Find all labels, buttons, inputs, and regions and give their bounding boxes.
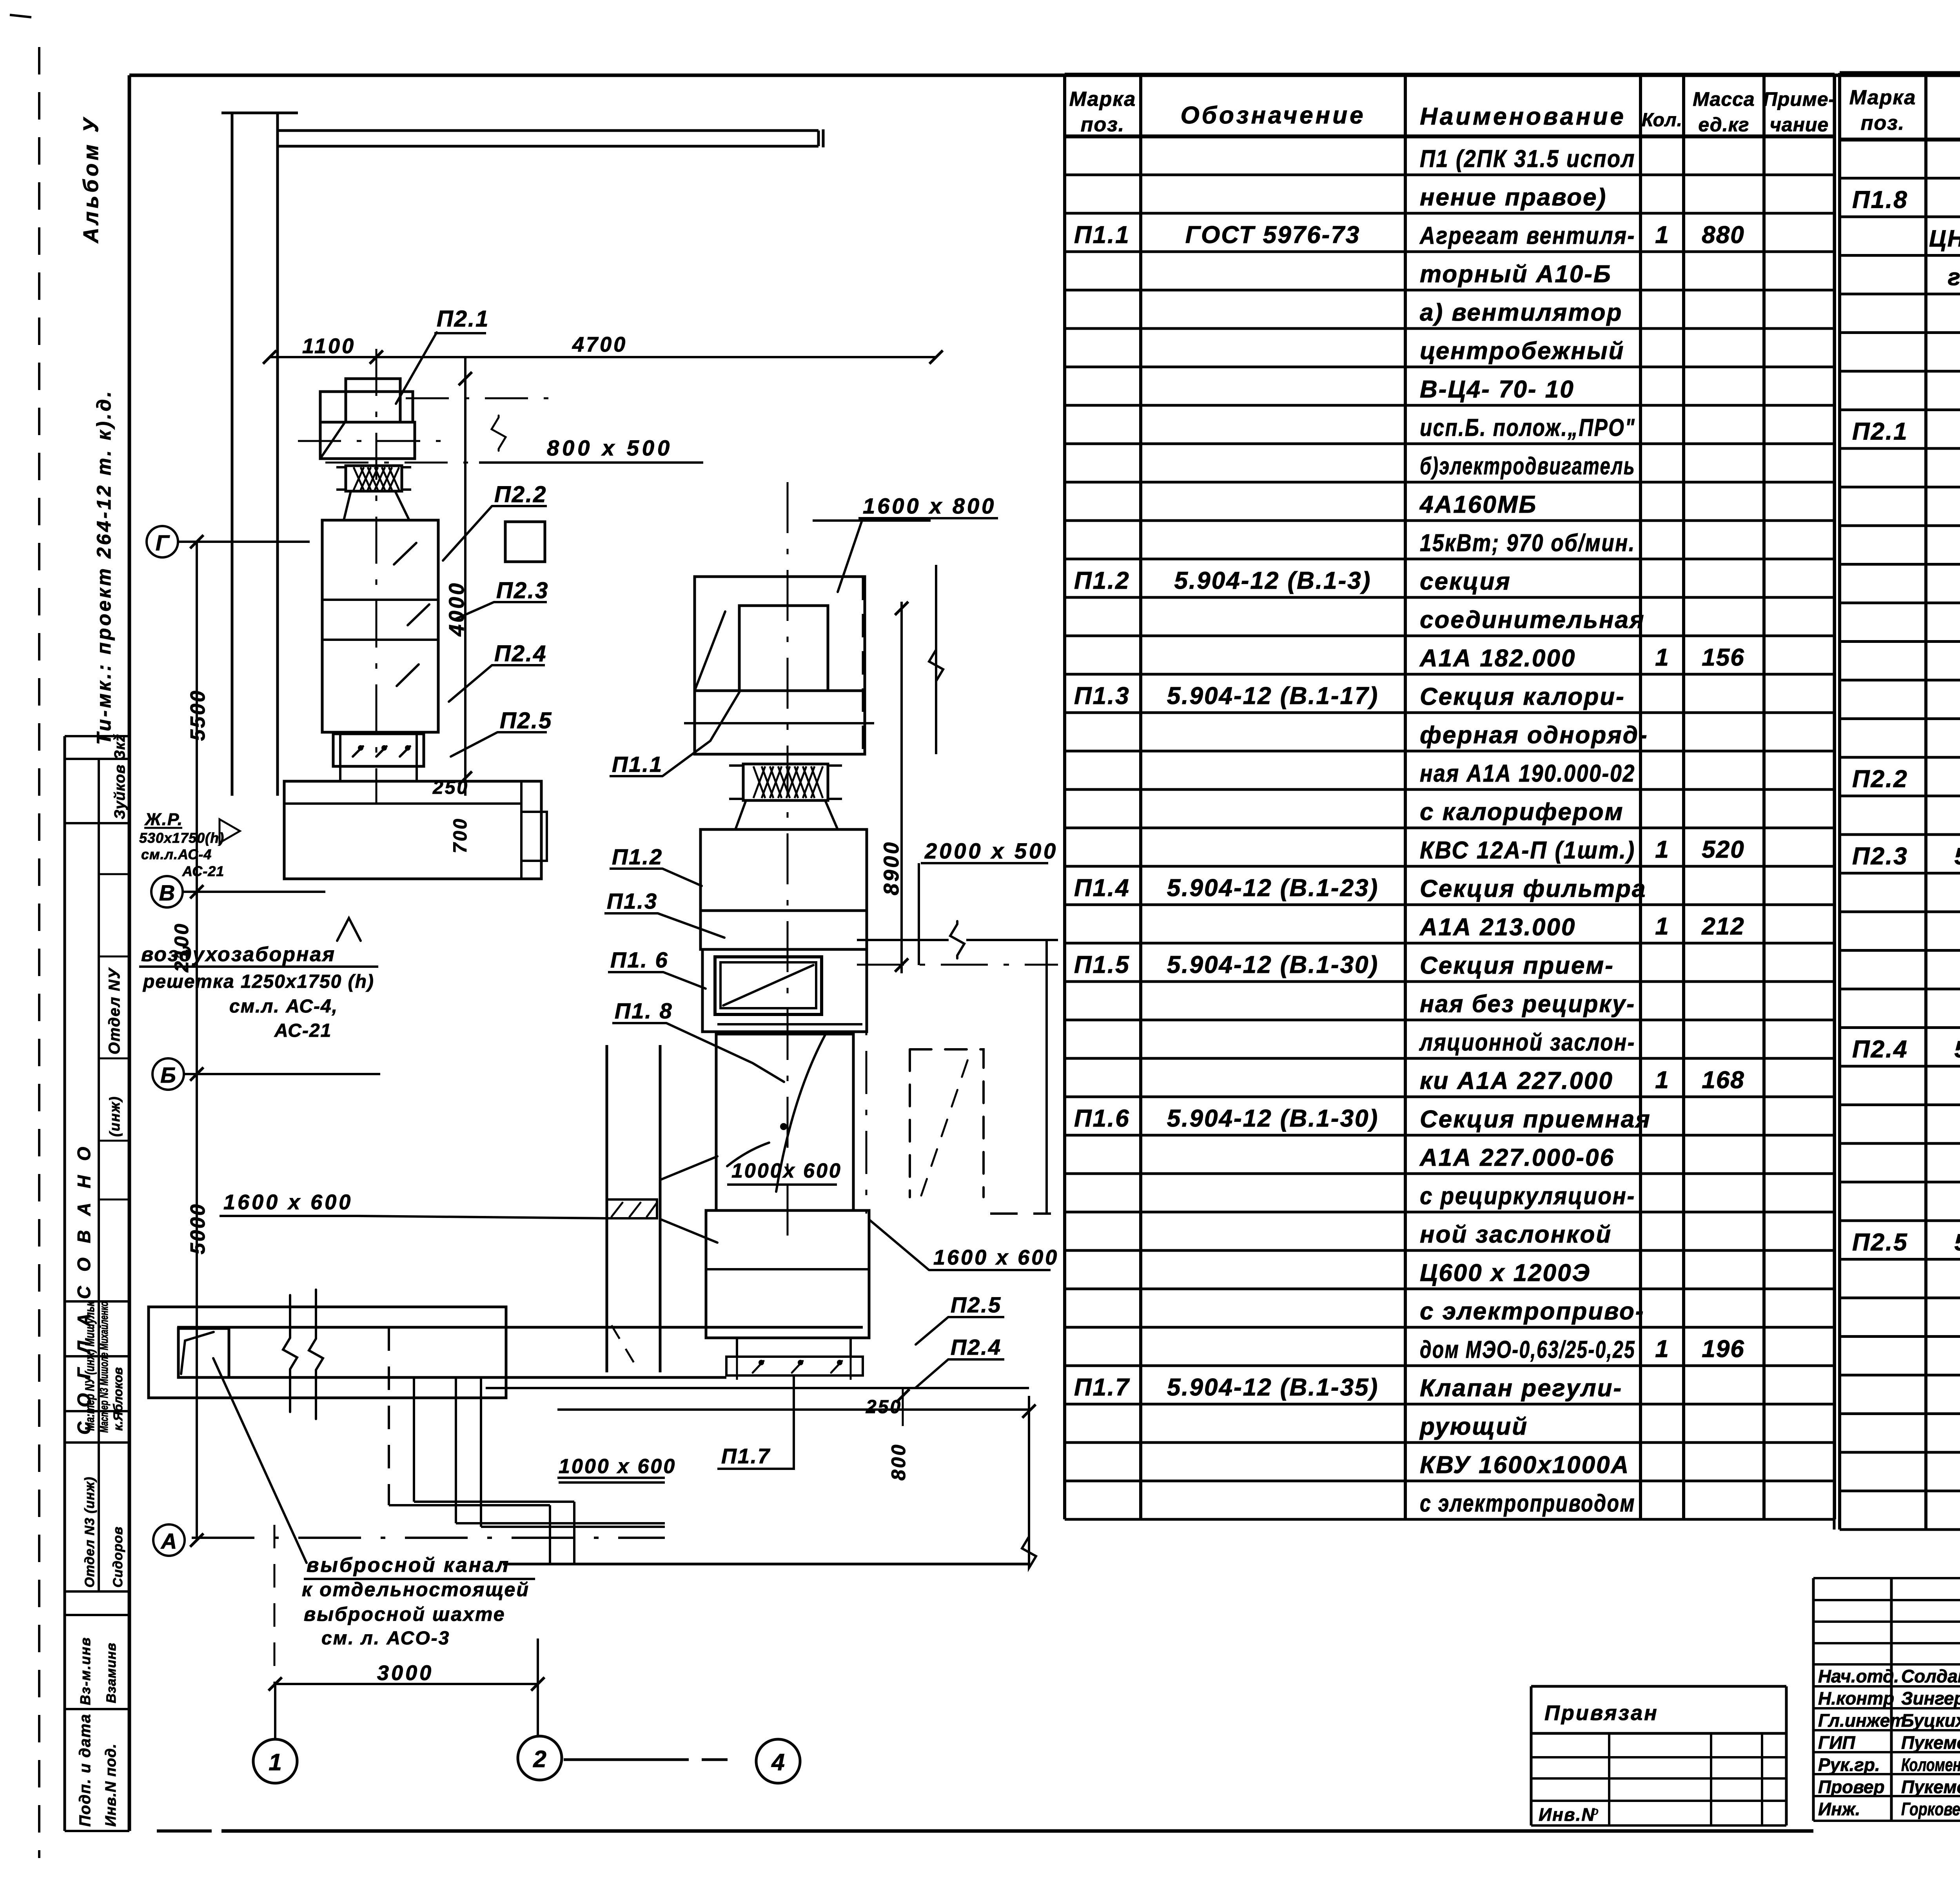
svg-text:1: 1 bbox=[1655, 836, 1669, 863]
svg-text:Горковенко: Горковенко bbox=[1901, 1799, 1960, 1819]
svg-text:П1.2: П1.2 bbox=[612, 844, 663, 869]
svg-text:Взаминв: Взаминв bbox=[104, 1642, 119, 1703]
svg-text:дом МЭО-0,63/25-0,25: дом МЭО-0,63/25-0,25 bbox=[1420, 1336, 1635, 1363]
svg-text:П1.6: П1.6 bbox=[1074, 1105, 1130, 1132]
svg-text:выбросной шахте: выбросной шахте bbox=[304, 1603, 506, 1625]
svg-text:1: 1 bbox=[1655, 913, 1669, 940]
svg-text:1: 1 bbox=[1655, 221, 1669, 249]
svg-text:Марка: Марка bbox=[1849, 86, 1916, 109]
svg-text:800: 800 bbox=[887, 1443, 909, 1481]
svg-text:Наименование: Наименование bbox=[1420, 103, 1626, 130]
svg-text:Вз-м.инв: Вз-м.инв bbox=[77, 1637, 93, 1705]
svg-text:1600 х 600: 1600 х 600 bbox=[933, 1246, 1059, 1269]
svg-text:П1.2: П1.2 bbox=[1074, 567, 1130, 594]
svg-text:соединительная: соединительная bbox=[1420, 606, 1645, 633]
svg-text:530х1750(h): 530х1750(h) bbox=[139, 830, 224, 846]
svg-text:15кВт; 970 об/мин.: 15кВт; 970 об/мин. bbox=[1420, 530, 1635, 557]
svg-text:Кол.: Кол. bbox=[1642, 110, 1682, 131]
svg-text:Ж.Р.: Ж.Р. bbox=[144, 810, 183, 829]
svg-text:1100: 1100 bbox=[302, 334, 356, 358]
svg-text:Ц600 х 1200Э: Ц600 х 1200Э bbox=[1420, 1259, 1591, 1287]
svg-text:Рук.гр.: Рук.гр. bbox=[1818, 1755, 1880, 1775]
svg-text:1: 1 bbox=[269, 1749, 281, 1775]
svg-text:4700: 4700 bbox=[572, 333, 627, 356]
svg-text:800 х 500: 800 х 500 bbox=[547, 435, 673, 460]
svg-text:П2.5: П2.5 bbox=[500, 708, 552, 733]
svg-text:156: 156 bbox=[1702, 644, 1744, 671]
svg-text:Зингер: Зингер bbox=[1901, 1688, 1960, 1709]
svg-text:1: 1 bbox=[1655, 1067, 1669, 1094]
svg-text:А1А 227.000-06: А1А 227.000-06 bbox=[1419, 1144, 1615, 1171]
svg-text:(инж): (инж) bbox=[107, 1096, 123, 1137]
svg-text:АС-21: АС-21 bbox=[274, 1020, 332, 1041]
svg-text:1000х 600: 1000х 600 bbox=[731, 1159, 842, 1182]
svg-text:П1.5: П1.5 bbox=[1074, 951, 1130, 978]
svg-text:В: В bbox=[159, 880, 175, 905]
svg-text:5.904-12 (В.1-3): 5.904-12 (В.1-3) bbox=[1174, 567, 1372, 594]
svg-text:П2.2: П2.2 bbox=[494, 482, 547, 507]
svg-text:Отдел NУ: Отдел NУ bbox=[106, 967, 123, 1054]
svg-text:Солдатов: Солдатов bbox=[1901, 1666, 1960, 1686]
svg-text:П2.5: П2.5 bbox=[1852, 1229, 1908, 1256]
svg-text:ферная одноряд-: ферная одноряд- bbox=[1420, 722, 1648, 749]
svg-text:Ма:тер NУ (инж) Мишульк: Ма:тер NУ (инж) Мишульк bbox=[83, 1301, 97, 1431]
svg-text:см.л.АС-4: см.л.АС-4 bbox=[141, 846, 212, 862]
svg-text:ной заслонкой: ной заслонкой bbox=[1420, 1221, 1612, 1248]
svg-text:Пукемо: Пукемо bbox=[1901, 1733, 1960, 1753]
svg-text:П1.8: П1.8 bbox=[1852, 187, 1908, 214]
svg-text:ная без рецирку-: ная без рецирку- bbox=[1420, 991, 1635, 1018]
svg-text:чание: чание bbox=[1770, 114, 1829, 136]
svg-text:3000: 3000 bbox=[377, 1661, 434, 1685]
svg-text:секция: секция bbox=[1420, 568, 1511, 595]
svg-text:исп.Б. полож.„ПРО": исп.Б. полож.„ПРО" bbox=[1420, 414, 1635, 441]
svg-text:П1. 8: П1. 8 bbox=[615, 998, 673, 1023]
svg-text:2: 2 bbox=[533, 1746, 546, 1772]
svg-text:Гл.инжет: Гл.инжет bbox=[1818, 1710, 1906, 1731]
svg-text:8900: 8900 bbox=[880, 840, 903, 895]
svg-text:Клапан регули-: Клапан регули- bbox=[1420, 1375, 1622, 1402]
svg-text:КВС 12А-П (1шт.): КВС 12А-П (1шт.) bbox=[1420, 837, 1635, 864]
svg-text:П2.3: П2.3 bbox=[1852, 843, 1908, 870]
svg-text:АС-21: АС-21 bbox=[182, 863, 224, 879]
svg-text:б)электродвигатель: б)электродвигатель bbox=[1420, 453, 1635, 480]
svg-text:с электроприводом: с электроприводом bbox=[1420, 1490, 1635, 1517]
svg-text:5.904-12 (В.1-30): 5.904-12 (В.1-30) bbox=[1167, 951, 1379, 978]
svg-text:Буцких: Буцких bbox=[1901, 1710, 1960, 1731]
svg-text:Нач.отд.: Нач.отд. bbox=[1818, 1666, 1899, 1686]
svg-text:П2.1: П2.1 bbox=[1852, 418, 1908, 445]
svg-text:Сидоров: Сидоров bbox=[111, 1526, 125, 1588]
svg-text:поз.: поз. bbox=[1081, 113, 1125, 136]
svg-text:с электроприво-: с электроприво- bbox=[1420, 1298, 1644, 1325]
svg-text:Инж.: Инж. bbox=[1818, 1799, 1860, 1819]
svg-text:Приме-: Приме- bbox=[1763, 88, 1836, 110]
svg-text:к отдельностоящей: к отдельностоящей bbox=[302, 1579, 530, 1600]
svg-text:П2.2: П2.2 bbox=[1852, 766, 1908, 793]
svg-text:5.904-12 (В.1-35): 5.904-12 (В.1-35) bbox=[1955, 1229, 1960, 1256]
svg-text:Зуйков Зкž: Зуйков Зкž bbox=[112, 734, 128, 819]
svg-text:Г: Г bbox=[156, 530, 170, 555]
svg-text:Масса: Масса bbox=[1693, 88, 1755, 110]
svg-text:Секция калори-: Секция калори- bbox=[1420, 683, 1625, 710]
svg-text:П1.7: П1.7 bbox=[1074, 1374, 1130, 1401]
svg-text:Инв.N под.: Инв.N под. bbox=[103, 1744, 119, 1827]
svg-text:Н.контр: Н.контр bbox=[1818, 1688, 1894, 1709]
svg-text:КВУ 1600х1000А: КВУ 1600х1000А bbox=[1420, 1452, 1630, 1479]
svg-text:5.904-12 (В.1-35): 5.904-12 (В.1-35) bbox=[1167, 1374, 1379, 1401]
svg-text:5.904-12 (В.1-23): 5.904-12 (В.1-23) bbox=[1167, 875, 1379, 902]
svg-text:А1А 182.000: А1А 182.000 bbox=[1419, 645, 1576, 672]
svg-text:ляционной заслон-: ляционной заслон- bbox=[1419, 1029, 1635, 1056]
svg-text:ед.кг: ед.кг bbox=[1698, 114, 1749, 136]
svg-text:Секция прием-: Секция прием- bbox=[1420, 952, 1614, 979]
svg-text:А1А 213.000: А1А 213.000 bbox=[1419, 914, 1576, 941]
svg-text:Отдел N3 (инж): Отдел N3 (инж) bbox=[82, 1477, 97, 1588]
svg-text:5500: 5500 bbox=[187, 689, 209, 741]
svg-text:решетка 1250х1750 (h): решетка 1250х1750 (h) bbox=[142, 971, 374, 992]
svg-text:Инв.N: Инв.N bbox=[1539, 1804, 1595, 1825]
svg-text:Мастер N3 Мишоле Михайленко: Мастер N3 Мишоле Михайленко bbox=[98, 1301, 111, 1433]
svg-text:5.904-12 (В.1-17): 5.904-12 (В.1-17) bbox=[1167, 682, 1379, 709]
svg-text:1: 1 bbox=[1655, 1335, 1669, 1363]
svg-text:5000: 5000 bbox=[187, 1203, 209, 1254]
svg-text:168: 168 bbox=[1702, 1067, 1744, 1094]
svg-text:ки А1А 227.000: ки А1А 227.000 bbox=[1420, 1067, 1613, 1094]
svg-text:1600 х 600: 1600 х 600 bbox=[223, 1190, 353, 1214]
svg-text:ная А1А 190.000-02: ная А1А 190.000-02 bbox=[1420, 760, 1635, 787]
svg-text:700: 700 bbox=[450, 817, 471, 853]
svg-text:Секция приемная: Секция приемная bbox=[1420, 1106, 1651, 1133]
svg-text:Обозначение: Обозначение bbox=[1180, 102, 1365, 129]
svg-text:ГИП: ГИП bbox=[1818, 1733, 1855, 1753]
svg-text:5.904-12 (В.1-30): 5.904-12 (В.1-30) bbox=[1167, 1105, 1379, 1132]
svg-text:А: А bbox=[160, 1529, 177, 1553]
svg-text:П1. 6: П1. 6 bbox=[610, 947, 669, 972]
svg-text:рующий: рующий bbox=[1419, 1413, 1528, 1440]
svg-text:П2.4: П2.4 bbox=[951, 1335, 1002, 1359]
svg-text:2000 х 500: 2000 х 500 bbox=[924, 838, 1058, 863]
svg-text:поз.: поз. bbox=[1861, 112, 1905, 134]
svg-text:250: 250 bbox=[866, 1397, 902, 1417]
svg-text:880: 880 bbox=[1702, 221, 1744, 249]
svg-text:1: 1 bbox=[1655, 644, 1669, 671]
svg-text:воздухозаборная: воздухозаборная bbox=[141, 943, 336, 966]
svg-text:см. л. АСО-3: см. л. АСО-3 bbox=[321, 1628, 450, 1649]
svg-text:П1.3: П1.3 bbox=[1074, 682, 1130, 709]
svg-text:П1 (2ПК 31.5 испол: П1 (2ПК 31.5 испол bbox=[1420, 145, 1635, 172]
svg-text:212: 212 bbox=[1701, 913, 1744, 940]
svg-text:4000: 4000 bbox=[445, 581, 468, 637]
svg-text:5.904-12 (В.1-17): 5.904-12 (В.1-17) bbox=[1955, 843, 1960, 869]
svg-text:П1.1: П1.1 bbox=[612, 752, 663, 777]
svg-text:с рециркуляцион-: с рециркуляцион- bbox=[1420, 1183, 1635, 1210]
svg-text:5.904-12 (В.1-28): 5.904-12 (В.1-28) bbox=[1955, 1036, 1960, 1063]
svg-text:ГОСТ 5976-73: ГОСТ 5976-73 bbox=[1185, 221, 1361, 249]
svg-text:Подп. и дата: Подп. и дата bbox=[76, 1713, 94, 1827]
svg-text:ЦНИИЭП инженерно: ЦНИИЭП инженерно bbox=[1929, 225, 1960, 252]
svg-text:Провер: Провер bbox=[1818, 1777, 1885, 1797]
svg-text:Секция фильтра: Секция фильтра bbox=[1420, 875, 1646, 902]
svg-text:В-Ц4- 70- 10: В-Ц4- 70- 10 bbox=[1420, 376, 1575, 403]
svg-text:П2.1: П2.1 bbox=[437, 306, 489, 332]
svg-text:Ти-мк.: проект 264-12 т. к).д.: Ти-мк.: проект 264-12 т. к).д. bbox=[93, 389, 115, 745]
svg-text:П1.1: П1.1 bbox=[1074, 221, 1130, 249]
svg-text:торный А10-Б: торный А10-Б bbox=[1420, 261, 1612, 288]
svg-text:к.Яблоков: к.Яблоков bbox=[111, 1367, 125, 1431]
svg-text:П2.4: П2.4 bbox=[1852, 1036, 1908, 1063]
svg-text:го оборудования: го оборудования bbox=[1948, 264, 1960, 290]
svg-text:с калорифером: с калорифером bbox=[1420, 798, 1624, 826]
svg-text:выбросной канал: выбросной канал bbox=[307, 1554, 510, 1577]
svg-text:П2.3: П2.3 bbox=[496, 578, 549, 603]
svg-text:П2.4: П2.4 bbox=[494, 641, 547, 666]
svg-text:центробежный: центробежный bbox=[1420, 338, 1624, 365]
svg-text:П2.5: П2.5 bbox=[951, 1292, 1002, 1317]
svg-text:П1.7: П1.7 bbox=[721, 1444, 771, 1468]
svg-text:1000 х 600: 1000 х 600 bbox=[559, 1455, 676, 1478]
svg-text:Пукемо: Пукемо bbox=[1901, 1777, 1960, 1797]
svg-text:1600 х 800: 1600 х 800 bbox=[863, 494, 996, 518]
svg-text:4А160МБ: 4А160МБ bbox=[1419, 491, 1537, 518]
svg-text:196: 196 bbox=[1702, 1335, 1744, 1363]
svg-text:нение правое): нение правое) bbox=[1420, 184, 1607, 211]
svg-text:П1.4: П1.4 bbox=[1074, 875, 1130, 902]
svg-text:Агрегат вентиля-: Агрегат вентиля- bbox=[1419, 222, 1635, 249]
svg-text:Альбом У: Альбом У bbox=[79, 115, 103, 244]
svg-text:520: 520 bbox=[1702, 836, 1744, 863]
svg-text:а) вентилятор: а) вентилятор bbox=[1420, 299, 1622, 326]
svg-text:Коломенчев: Коломенчев bbox=[1901, 1755, 1960, 1775]
svg-text:о: о bbox=[1592, 1805, 1599, 1818]
svg-text:см.л. АС-4,: см.л. АС-4, bbox=[229, 996, 338, 1017]
svg-text:Марка: Марка bbox=[1069, 88, 1136, 111]
svg-text:4: 4 bbox=[771, 1749, 784, 1775]
svg-text:Б: Б bbox=[160, 1063, 176, 1087]
svg-text:Привязан: Привязан bbox=[1544, 1701, 1659, 1725]
svg-text:П1.3: П1.3 bbox=[607, 889, 658, 913]
